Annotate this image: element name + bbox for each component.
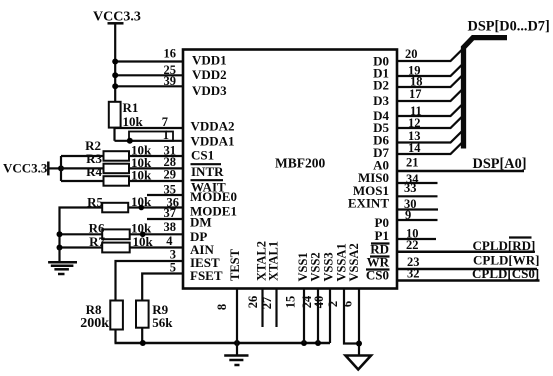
wire VSS2 pin24 xyxy=(317,289,319,344)
svg-text:22: 22 xyxy=(406,238,419,252)
bottom pin numbers (rotated) xyxy=(215,295,355,310)
svg-text:MBF200: MBF200 xyxy=(275,156,325,171)
node junction dots on VCC rail xyxy=(112,59,118,65)
node dot VSS1 xyxy=(301,340,307,346)
svg-text:38: 38 xyxy=(164,220,177,234)
svg-text:56k: 56k xyxy=(152,315,173,330)
wire pin4 xyxy=(130,246,183,248)
wire D4 pin11 xyxy=(397,104,463,116)
svg-text:2: 2 xyxy=(326,301,340,307)
wire D6 pin13 xyxy=(397,131,463,143)
resistor R4 xyxy=(86,164,152,186)
overline RD xyxy=(371,242,390,244)
wire pin31 xyxy=(129,155,183,157)
wire pin36 xyxy=(128,206,183,208)
wire RD pin22 xyxy=(397,251,534,254)
resistor R7 xyxy=(89,234,153,253)
overline WR xyxy=(370,255,390,257)
wire pin38 xyxy=(130,233,183,235)
wire pin35 stub xyxy=(147,194,183,196)
resistor R3 xyxy=(86,151,152,173)
svg-text:VDDA1: VDDA1 xyxy=(191,133,235,148)
wire D1 pin19 xyxy=(397,64,463,76)
wire D7 pin14 xyxy=(397,142,463,154)
svg-text:R1: R1 xyxy=(123,100,139,115)
svg-text:CS1: CS1 xyxy=(191,148,214,163)
net label CPLD[RD] xyxy=(473,238,536,254)
wire pin29 xyxy=(129,180,183,182)
node dot R5 right xyxy=(139,205,145,211)
power VCC3.3 top xyxy=(93,10,141,103)
resistor R8 xyxy=(80,301,123,332)
svg-text:21: 21 xyxy=(406,156,419,170)
wire to R2 xyxy=(61,155,104,157)
node dot R6 right xyxy=(140,232,146,238)
wire R5 left xyxy=(60,208,103,248)
wire D0 pin20 xyxy=(397,49,463,61)
svg-text:VDD3: VDD3 xyxy=(192,83,227,98)
wire P1 pin10 stub xyxy=(397,238,436,240)
overline CS0 xyxy=(366,268,390,270)
wire VSSA1 pin2 xyxy=(344,289,359,344)
svg-text:D3: D3 xyxy=(373,93,389,108)
svg-text:VDD1: VDD1 xyxy=(192,53,227,68)
svg-text:DM: DM xyxy=(190,215,212,230)
svg-text:16: 16 xyxy=(164,47,177,61)
resistor R5 xyxy=(87,194,152,212)
wire pin37 stub xyxy=(147,218,183,220)
svg-text:EXINT: EXINT xyxy=(348,196,390,211)
small box on VDDA1 line xyxy=(129,132,173,141)
svg-text:3: 3 xyxy=(170,248,176,262)
ground center (under TEST) xyxy=(224,343,248,365)
svg-text:26: 26 xyxy=(246,296,260,309)
wire WR pin23 xyxy=(397,268,537,271)
svg-text:VDDA2: VDDA2 xyxy=(191,119,235,134)
svg-text:R8: R8 xyxy=(86,302,102,317)
wire A0 pin21 xyxy=(397,170,524,173)
wire R8 bottom xyxy=(114,330,116,344)
svg-text:INTR: INTR xyxy=(191,164,224,179)
node dot VCC left xyxy=(58,165,64,171)
wire MIS0 pin34 stub xyxy=(397,182,438,184)
wire pin39 xyxy=(114,85,183,87)
svg-text:VSSA2: VSSA2 xyxy=(347,243,361,281)
svg-text:VSS3: VSS3 xyxy=(322,252,336,281)
wire bottom ground rail xyxy=(115,342,331,345)
bus DSP[D0...D7] xyxy=(464,19,550,149)
wire P0 pin9 stub xyxy=(397,219,438,221)
svg-text:VSS2: VSS2 xyxy=(309,252,323,281)
wire to R4 xyxy=(61,180,104,182)
wire pin1 VDDA1 xyxy=(115,140,184,142)
wire R1 bottom lead xyxy=(113,128,115,141)
svg-text:DSP[A0]: DSP[A0] xyxy=(473,156,527,172)
node dot R9 bottom xyxy=(140,340,146,346)
ground analog triangle xyxy=(346,356,372,370)
node dot VSS2 xyxy=(315,340,321,346)
resistor R1 xyxy=(109,100,144,129)
svg-text:R4: R4 xyxy=(86,164,102,179)
svg-text:DSP[D0...D7]: DSP[D0...D7] xyxy=(468,19,550,35)
power VCC3.3 left xyxy=(3,161,61,176)
bottom inside rotated labels xyxy=(228,241,361,282)
right pin numbers xyxy=(404,47,423,281)
resistor R2 xyxy=(85,138,152,161)
wire D2 pin18 xyxy=(397,75,463,87)
wire VCC left rail xyxy=(60,156,62,181)
wire R9 bottom xyxy=(141,328,143,343)
node dot R6 left xyxy=(57,231,63,237)
ground left xyxy=(48,248,77,275)
wire XTAL1 pin27 stub xyxy=(275,289,277,328)
wire pin28 xyxy=(129,167,183,169)
svg-text:17: 17 xyxy=(409,87,422,101)
node dot VSSA junction xyxy=(356,341,362,347)
svg-text:20: 20 xyxy=(405,47,418,61)
wire to R3 xyxy=(61,167,104,169)
net label CPLD[WR] xyxy=(473,252,539,268)
svg-text:MODE0: MODE0 xyxy=(190,189,237,204)
node dot TEST bottom xyxy=(234,340,240,346)
svg-text:10k: 10k xyxy=(123,114,144,129)
svg-text:TEST: TEST xyxy=(228,248,242,281)
svg-text:8: 8 xyxy=(215,304,229,310)
overline INTR xyxy=(191,163,222,165)
wire VSS1 pin15 xyxy=(303,289,305,344)
overline WAIT xyxy=(191,179,224,181)
wire TEST pin8 xyxy=(236,289,238,344)
wire VSSA2 pin6 xyxy=(358,289,360,356)
wire pin3 IEST to R8 xyxy=(116,261,184,301)
svg-text:CPLD[CS0]: CPLD[CS0] xyxy=(472,266,539,281)
wire D5 pin12 xyxy=(397,116,463,128)
left inside pin labels xyxy=(190,53,237,284)
wire VSS3 pin40 xyxy=(329,289,331,344)
svg-text:D2: D2 xyxy=(373,78,389,93)
wire pin16 xyxy=(114,60,183,62)
svg-text:15: 15 xyxy=(284,296,298,309)
wire pin5 FSET to R9 xyxy=(142,274,183,301)
wire EXINT pin30 stub xyxy=(397,208,438,210)
svg-text:VCC3.3: VCC3.3 xyxy=(3,161,48,176)
node dot VDDA1 junction xyxy=(127,138,133,144)
op-amp U1 MBF200 chip body xyxy=(183,50,397,289)
wire pin25 xyxy=(114,74,183,76)
svg-text:6: 6 xyxy=(341,301,355,307)
resistor R6 xyxy=(89,221,152,240)
wire MOS1 pin33 stub xyxy=(397,195,438,197)
resistor R9 xyxy=(136,301,173,331)
wire R7 left xyxy=(60,246,103,248)
svg-text:FSET: FSET xyxy=(190,268,223,283)
right inside pin labels xyxy=(348,53,390,282)
svg-text:VDD2: VDD2 xyxy=(192,67,227,82)
wire pin7 VDDA2 xyxy=(115,127,184,129)
wire XTAL2 pin26 stub xyxy=(261,289,263,328)
svg-text:29: 29 xyxy=(164,168,177,182)
wire D3 pin17 xyxy=(397,89,463,101)
node dot R7 left xyxy=(57,245,63,251)
svg-text:XTAL1: XTAL1 xyxy=(267,241,281,281)
left pin numbers xyxy=(162,47,179,275)
svg-text:200k: 200k xyxy=(80,316,109,331)
wire R6 left xyxy=(60,233,103,235)
svg-text:4: 4 xyxy=(166,234,173,248)
wire CS0 pin32 xyxy=(397,279,540,282)
